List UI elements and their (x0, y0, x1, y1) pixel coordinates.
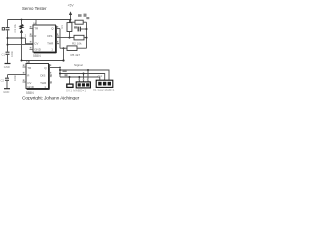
potentiometer R3 (zigzag with wiper arrow) (20, 20, 23, 39)
IC1 pin number marks right (57, 26, 59, 43)
wire Q net to R5 left (60, 47, 67, 49)
wire C3 bottom down to C1 top (7, 30, 9, 51)
junction trigger row / drop (62, 59, 64, 61)
junction output column / y73.5 row (59, 73, 61, 75)
supply symbol +5V (arrow) (68, 4, 75, 20)
wire C1 bottom to ground (7, 55, 9, 64)
IC1 pin number marks left (30, 26, 32, 49)
wire row y73.5 to X1 (60, 74, 105, 81)
wire signal row y70 to X1 (60, 70, 109, 80)
test pad LSP1 (65, 74, 74, 87)
junction R3 bottom on upper wire (21, 37, 23, 39)
wire C2 node to IC2 R pin (8, 74, 27, 76)
svg-text:GND: GND (27, 85, 35, 89)
wire right vertical net (R4/C4/R2 node) (86, 22, 88, 48)
junction Q stub / output column (59, 67, 61, 69)
svg-text:Servo Tester: Servo Tester (22, 6, 47, 11)
IC U1 (IC1 NE555 box with drop shadow) (33, 25, 56, 53)
wire Q net vertical down (59, 29, 61, 49)
ground GND2 (3, 89, 10, 94)
junction SV1 pin 2 / y73.5 row (83, 73, 85, 75)
svg-text:R2 10k: R2 10k (72, 41, 82, 45)
wire row y77 to X1 (60, 77, 100, 80)
wire IC1 DIS row to R2 (56, 37, 74, 39)
wire IC2 Q pin stub to right (50, 67, 60, 69)
svg-text:X1 GA2 MAB=1: X1 GA2 MAB=1 (93, 88, 115, 92)
capacitor C4 (series trigger cap, vertical plates) (74, 17, 89, 31)
IC2 right pin stubs (DIS THR) (49, 75, 52, 82)
junction wiper / trigger row (21, 60, 23, 62)
wire C2 bottom to ground (6, 81, 8, 89)
wire SV1 pin 1 drop (78, 77, 80, 82)
junction C4 on right net (86, 28, 88, 30)
junction test pad / y77 row (69, 76, 71, 78)
IC1 right pin stubs (DIS THR) (56, 36, 59, 44)
svg-text:C3 10u: C3 10u (13, 23, 17, 32)
svg-text:C1: C1 (2, 53, 6, 57)
junction SV1 pin 3 / y70 row (87, 69, 89, 71)
svg-text:100n: 100n (10, 51, 14, 57)
capacitor C3 10u (polarized, with + mark and rotated value label) (2, 23, 17, 32)
wire lower left into IC1 CV pin (8, 44, 34, 46)
svg-text:R1: R1 (60, 25, 64, 29)
wire SV1 pin 3 drop (87, 70, 89, 82)
ground GND1 (4, 64, 11, 69)
svg-text:SV1 MABD=1: SV1 MABD=1 (66, 88, 86, 92)
svg-text:+5V: +5V (68, 4, 75, 8)
wire SV1 pin 2 drop (83, 74, 85, 83)
svg-text:Copyright: Johann Aichinger: Copyright: Johann Aichinger (22, 95, 80, 100)
wire output column x60 down (59, 68, 61, 78)
IC2 pin number marks left (23, 64, 25, 81)
svg-text:8A: 8A (26, 60, 29, 64)
svg-text:GND: GND (34, 48, 42, 52)
svg-text:C2: C2 (1, 79, 5, 83)
junction node A at C-line/upper wire (7, 37, 9, 39)
wire R3 wiper down to trigger row (21, 38, 23, 61)
resistor R4 (horizontal, rail to trigger net) (71, 14, 87, 25)
resistor R5 4k7 (horizontal) (67, 46, 87, 57)
wire +5V rail (top horizontal net VCC) (8, 19, 71, 21)
wire test pad drop (69, 77, 71, 84)
wire IC1 Q pin stub to right (56, 28, 60, 30)
IC2 pin 8 VCC stub (28, 61, 30, 64)
junction rail end / R4 branch (70, 19, 72, 21)
wire rail down to C3 top (7, 20, 9, 28)
junction R3 top on +5V rail (21, 19, 23, 21)
svg-text:GND: GND (4, 65, 10, 69)
IC1 pin 8 VCC stub (35, 20, 37, 25)
IC2 pin number marks right (50, 64, 52, 83)
IC2 left pin stubs (23, 67, 27, 82)
svg-text:+5nd: +5nd (97, 75, 103, 78)
IC2 pin name labels (TR R CV GND / Q DIS THR) (27, 66, 47, 89)
svg-text:THR: THR (47, 42, 54, 46)
svg-text:100n: 100n (13, 75, 17, 81)
wire jog down into IC1 TR pin (26, 38, 34, 44)
connector SV1 (servo header, 3 pins) (66, 79, 90, 93)
junction at C-line/lower wire (7, 44, 9, 46)
svg-text:8A: 8A (33, 22, 36, 26)
svg-text:CV: CV (34, 42, 38, 46)
capacitor C2 100n (IC2 timing) (1, 75, 18, 83)
capacitor C1 100n (2, 51, 15, 57)
junction R5 row / trigger drop (63, 47, 65, 49)
IC2 pin 3 number mark near Q net (63, 69, 67, 72)
svg-text:GND: GND (3, 90, 9, 94)
junction R2 on right net (86, 37, 88, 39)
junction output column / y70 row (59, 69, 61, 71)
resistor R2 10k (horizontal DIS to THR) (72, 35, 87, 45)
svg-text:Signal: Signal (74, 63, 83, 67)
svg-text:R5 4k7: R5 4k7 (71, 53, 81, 57)
svg-text:555N: 555N (26, 91, 34, 95)
svg-text:.: . (64, 32, 67, 33)
junction SV1 pin 1 / y77 row (78, 76, 80, 78)
svg-text:DIS: DIS (47, 34, 52, 38)
wire node A horizontal to IC1 (upper left wire) (8, 37, 26, 39)
IC1 left pin stubs (30, 29, 34, 50)
svg-text:2: 2 (25, 34, 27, 37)
connector X1 (power header, 3 pins) (93, 75, 115, 92)
wire trigger drop vertical x63.5 (63, 48, 65, 60)
svg-text:DIS: DIS (40, 73, 45, 77)
wire trigger row y60.5 under IC1 (22, 60, 64, 62)
junction R1 bottom on DIS row (69, 37, 71, 39)
svg-text:555N: 555N (33, 54, 41, 58)
IC U2 (IC2 NE555 box with drop shadow) (26, 64, 49, 90)
resistor R1 (vertical, rail to DIS) (60, 20, 72, 38)
IC1 pin name labels (TR R CV GND / Q DIS THR) (34, 27, 54, 52)
